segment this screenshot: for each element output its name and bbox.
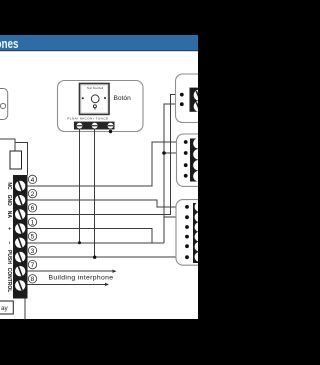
bar screw 1 [77,123,83,129]
wire row5 minus(5) to device3 dot2 riser [28,242,165,244]
left device outline [0,89,8,120]
riser branch to device3 dot2 [164,216,187,218]
arrow row7 [113,270,117,273]
circled terminal numbers [28,175,36,283]
relay box [0,301,13,314]
svg-text:1: 1 [31,219,35,226]
node 1 circled [28,218,36,227]
branch to device2 dot2 [164,152,186,154]
device1 screw1 [194,90,205,101]
wire row2 GND(2) to device3 dot1 [28,200,188,207]
wire row8 (8) arrow [28,283,109,285]
svg-text:5: 5 [31,234,35,241]
junction dot screw1 row5 [78,241,81,244]
wire from component top to strip top [15,143,28,176]
device3 body [176,200,216,266]
svg-text:NA: NA [6,211,12,219]
svg-text:CONTROL: CONTROL [6,268,12,293]
wire from left edge to component [0,139,15,151]
svg-text:3: 3 [31,248,35,255]
device2 block [190,139,210,182]
svg-text:Building interphone: Building interphone [49,274,114,281]
wire row7 control(7) arrow [28,270,114,272]
svg-text:Test Doorbell: Test Doorbell [87,86,104,90]
doorbell screw2 wire down to row5 [94,130,96,258]
svg-text:6: 6 [31,205,35,212]
svg-text:NC: NC [6,182,12,190]
svg-text:ones: ones [0,36,19,51]
panel button circle [91,95,99,103]
strip body [13,175,28,299]
doorbell inner panel [80,84,110,115]
svg-text:ay: ay [1,305,9,312]
device2 body [177,134,217,186]
doorbell inner panel inner border [81,85,108,113]
wire row1 NC(4) to device2 dot1 [28,142,186,186]
svg-text:Botón: Botón [114,95,132,102]
svg-text:PLNAI MICONI TUNCE: PLNAI MICONI TUNCE [67,117,108,121]
junction dot chain device2 dot2 [162,151,166,155]
device1 screw2 [194,101,205,112]
svg-text:+: + [6,227,12,230]
device2 screw terminals [193,138,204,181]
svg-text:2: 2 [31,191,35,198]
strip screws terminals 1-8 [15,181,25,291]
top black band [0,0,198,35]
node 8 circled [28,275,36,284]
strip rotated labels [6,182,12,292]
svg-text:7: 7 [31,262,35,269]
strip screw slots [18,181,22,290]
node 5 circled [28,232,36,241]
device1 block [190,88,210,112]
node 6 circled [28,204,36,213]
doorbell screw1 wire down to row4 [79,130,81,243]
white content background [0,51,198,319]
node 3 circled [28,246,36,255]
panel left dot [82,97,84,99]
node 2 circled [28,189,36,198]
svg-text:−: − [6,241,12,244]
arrow row8 [105,283,109,286]
svg-text:PUSH: PUSH [6,250,12,264]
component rect [10,151,22,169]
bar screw 2 [92,123,98,129]
left device circle [0,103,5,108]
wire row3 NA(6) to device1 dot1 [28,95,182,215]
junction dot screw2 row5 [93,256,96,259]
blue header bar [0,35,198,51]
node 4 circled [28,175,36,184]
device2 dots [184,140,188,144]
device3 dots [185,205,189,209]
bottom black band [0,320,198,360]
device1 dot1 [180,93,184,97]
wire row6 push(3) to device3 dot6 [28,256,188,258]
device1 dot2 chain down to device3 dot2 [164,104,182,243]
device3 screw terminals [195,202,205,262]
node 7 circled [28,260,36,269]
device1 dot2 [180,102,184,106]
panel right dot [104,97,106,99]
device1 body [176,74,216,123]
svg-text:4: 4 [31,177,35,184]
svg-text:8: 8 [31,276,35,283]
device3 block [193,203,213,263]
blue header bar bottom edge [0,50,198,51]
screw3 junction dot [109,130,112,133]
svg-text:GND: GND [6,195,12,207]
finger pointer glyph [93,105,96,108]
doorbell outer body [58,81,144,132]
bar screw 3 [108,123,114,129]
wire strip bottom down [24,299,26,320]
wire row4 plus(1) drop to row5 [28,229,152,243]
doorbell terminal bar [74,122,115,130]
